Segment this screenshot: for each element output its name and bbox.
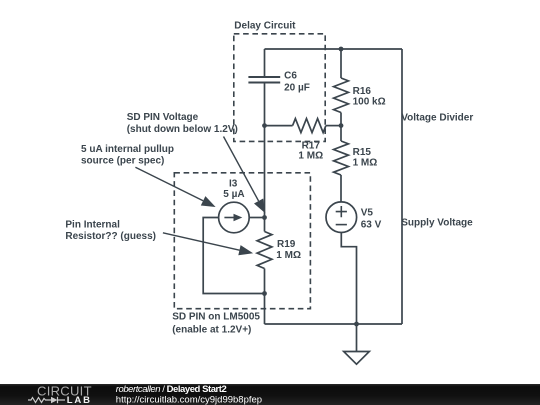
svg-text:(enable at 1.2V+): (enable at 1.2V+) [172,324,251,335]
svg-text:V5: V5 [361,208,374,219]
svg-text:Pin Internal: Pin Internal [65,219,120,230]
svg-text:(shut down below 1.2V): (shut down below 1.2V) [127,124,238,135]
wire: C6 top lead to top-left corner [264,49,266,77]
svg-text:I3: I3 [229,178,238,189]
svg-text:LAB: LAB [67,395,92,405]
svg-text:1 MΩ: 1 MΩ [298,151,323,162]
wire: V5 bottom lead jog to ground net [341,233,356,325]
resistor R15 [334,141,349,175]
svg-text:5 uA internal pullup: 5 uA internal pullup [81,144,174,155]
voltage source V5 [326,202,357,233]
wire: R15 top lead [340,126,342,141]
node: I3 loop bottom junction [262,291,267,296]
annotation arrow: SD PIN Voltage pointer [224,137,266,214]
wire: R16 top lead from top net [340,49,342,78]
wire: C6 bottom lead down to R17 node [264,83,266,126]
wire: I3 node to R19 top lead [264,218,266,232]
ground [344,352,370,365]
wire: top net from C6 branch to right rail [265,48,403,50]
wire: left vertical from R17 node to I3 node [264,126,266,218]
wire: bottom ground net [265,323,403,325]
svg-text:20 µF: 20 µF [284,82,310,93]
svg-text:Delay Circuit: Delay Circuit [234,20,296,31]
wire: I3 right lead to node [249,217,264,219]
annotation arrow: pin internal resistor pointer [163,233,253,256]
footer bar [0,384,540,405]
node: C6 branch / R17 junction [262,123,267,128]
footer logo: resistor squiggle and diode [28,397,65,403]
svg-text:Voltage Divider: Voltage Divider [401,112,473,123]
node: SD pin junction at I3 [262,215,267,220]
svg-text:robertcallen / Delayed Start2: robertcallen / Delayed Start2 [116,384,227,395]
annotation box: SD PIN on LM5005 [174,173,310,309]
wire: R19 bottom lead to bottom net [264,269,266,325]
svg-text:R15: R15 [353,147,372,158]
svg-text:1 MΩ: 1 MΩ [353,157,378,168]
node: ground net junction [354,322,359,327]
svg-text:source (per spec): source (per spec) [81,156,164,167]
svg-text:5 µA: 5 µA [223,189,244,200]
svg-text:http://circuitlab.com/cy9jd99b: http://circuitlab.com/cy9jd99b8pfep [116,394,262,405]
wire: R17 left lead [265,125,293,127]
annotation arrow: 5uA pullup pointer [135,167,215,207]
resistor R19 [257,232,272,269]
svg-text:SD PIN on LM5005: SD PIN on LM5005 [172,311,260,322]
svg-text:SD PIN Voltage: SD PIN Voltage [127,112,199,123]
wire: R15 bottom lead to V5 [340,175,342,202]
capacitor C6 [248,77,280,83]
annotation box: Delay Circuit [234,34,325,142]
svg-text:63 V: 63 V [361,219,382,230]
node: top net / R16 junction [339,47,344,52]
current source I3 [219,202,250,233]
svg-text:1 MΩ: 1 MΩ [276,250,301,261]
wire: R16 bottom lead to divider node [340,113,342,126]
resistor R16 [334,78,349,113]
wire: I3 left loop [203,218,264,294]
svg-text:Resistor?? (guess): Resistor?? (guess) [65,231,156,242]
svg-text:C6: C6 [284,71,297,82]
svg-text:R16: R16 [353,86,372,97]
svg-text:R19: R19 [277,239,296,250]
node: divider junction R16/R17/R15 [339,123,344,128]
wire: ground stem [356,324,358,352]
wire: R17 right lead [326,125,341,127]
svg-text:R17: R17 [302,140,321,151]
svg-text:Supply Voltage: Supply Voltage [401,217,473,228]
wire: right supply rail vertical [401,49,403,324]
svg-text:100 kΩ: 100 kΩ [353,97,386,108]
resistor R17 [293,119,326,133]
